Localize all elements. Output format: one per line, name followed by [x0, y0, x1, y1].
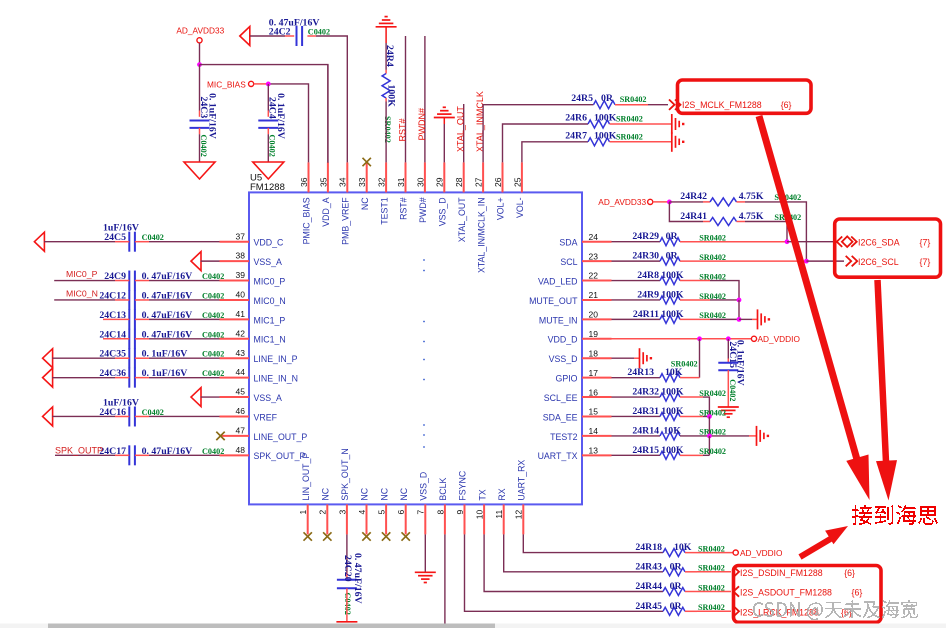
svg-text:PWDN#: PWDN# — [417, 108, 427, 141]
svg-text:24R31: 24R31 — [632, 406, 659, 417]
wire 24C12 right — [135, 299, 149, 301]
capacitor 24C14 — [128, 329, 130, 349]
off-page connector I2S_DSDIN chevron — [734, 567, 740, 577]
ground under C4 — [253, 162, 284, 179]
svg-text:RST#: RST# — [398, 118, 408, 141]
wire 24R18 to AD_VDDIO — [685, 552, 733, 554]
wire 24C12 left — [54, 299, 115, 301]
svg-text:C0402: C0402 — [142, 233, 164, 242]
svg-text:34: 34 — [338, 177, 348, 187]
wire 24R7 to ground — [610, 141, 672, 143]
capacitor 24C4 — [258, 120, 278, 122]
scrollbar — [0, 624, 946, 628]
wire C20 to ground — [346, 588, 348, 621]
svg-text:LINE_IN_P: LINE_IN_P — [254, 354, 298, 364]
wire vertical down — [708, 416, 710, 435]
port arrow pin 44 — [43, 368, 53, 387]
svg-text:0. 47uF/16V: 0. 47uF/16V — [352, 553, 363, 604]
svg-text:SPK_OUTP: SPK_OUTP — [55, 445, 103, 455]
wire AD_AVDD33 to junction — [653, 201, 670, 203]
wire pin 18 VSS_D to ground — [612, 357, 635, 359]
op-amp U5 FM1288 IC body — [249, 192, 582, 504]
svg-text:100K: 100K — [594, 113, 617, 124]
svg-text:0. 1uF/16V: 0. 1uF/16V — [275, 93, 286, 139]
pin 24 SDA stub — [582, 241, 612, 243]
pin 5 NC stub — [385, 504, 387, 534]
wire 24C17 right — [135, 454, 149, 456]
node junction VDD_D gpio — [697, 336, 702, 341]
capacitor 24C13 — [128, 309, 130, 329]
svg-text:100K: 100K — [385, 85, 396, 108]
wire 24R14 to ground — [680, 435, 749, 437]
svg-text:29: 29 — [435, 177, 445, 187]
wire pin 26 to 24R6 row — [503, 124, 589, 162]
capacitor 24C9 — [128, 271, 130, 291]
svg-text:C0402: C0402 — [202, 369, 224, 378]
wire 24C9 right — [135, 280, 149, 282]
wire pin 17 to 24R13 — [612, 377, 661, 379]
svg-text:PMIC_BIAS: PMIC_BIAS — [302, 197, 312, 244]
wire C4 to ground — [267, 128, 269, 134]
annotation arrow from I2C6 box — [878, 280, 887, 462]
pin 43 LINE_IN_P stub — [220, 357, 250, 359]
svg-text:PWD#: PWD# — [418, 197, 428, 223]
svg-text:12: 12 — [514, 510, 524, 520]
resistor 24R4 100K — [382, 74, 390, 99]
pin 35 VDD_A stub — [327, 162, 329, 192]
svg-text:VDD_D: VDD_D — [548, 335, 578, 345]
wire 24C16 left — [115, 415, 129, 417]
wire pin 20 to resistor 24R11 — [612, 318, 661, 320]
annotation arrow from I2S_MCLK box — [759, 116, 860, 470]
svg-text:0R: 0R — [666, 231, 679, 242]
pin 37 VDD_C stub — [220, 241, 250, 243]
annotation text 接到海思 — [852, 505, 938, 525]
pin 29 VSS_D stub — [443, 162, 445, 192]
wire 24R29 to I2C6_SDA — [680, 241, 787, 243]
svg-text:0R: 0R — [670, 561, 683, 572]
wire pin 9 to row 24R45 — [465, 534, 664, 611]
pin 39 MIC0_P stub — [220, 280, 250, 282]
pin 26 VOL+ stub — [502, 162, 504, 192]
pin 18 VSS_D stub — [582, 357, 612, 359]
pin 25 VOL- stub — [521, 162, 523, 192]
svg-text:MIC0_N: MIC0_N — [254, 296, 286, 306]
wire pin 15 to resistor 24R31 — [612, 415, 661, 417]
wire 24R11 to ground — [680, 318, 710, 320]
resistor 24R31 100K — [660, 412, 680, 420]
no-connect X pin 47 — [216, 432, 224, 440]
wire pin 45 — [201, 396, 220, 398]
svg-text:48: 48 — [236, 445, 246, 455]
pin 34 PMB_VREF stub — [346, 162, 348, 192]
node junction SCL pullup — [804, 259, 809, 264]
svg-text:NC: NC — [321, 487, 331, 500]
wire 24R30 to I2C6_SCL — [680, 260, 806, 262]
pin 19 VDD_D stub — [582, 338, 612, 340]
pin 15 SDA_EE stub — [582, 415, 612, 417]
svg-text:MUTE_IN: MUTE_IN — [539, 315, 578, 325]
pin 23 SCL stub — [582, 260, 612, 262]
svg-text:100K: 100K — [661, 406, 684, 417]
svg-text:SDA: SDA — [559, 238, 577, 248]
wire 24R13 to VDD_D net — [680, 377, 700, 379]
svg-text:MIC0_P: MIC0_P — [66, 269, 98, 279]
svg-text:10: 10 — [475, 510, 485, 520]
svg-text:10K: 10K — [663, 425, 681, 436]
svg-text:MIC0_P: MIC0_P — [254, 276, 286, 286]
wire junction down — [738, 300, 740, 319]
svg-text:VAD_LED: VAD_LED — [538, 276, 577, 286]
svg-text:31: 31 — [396, 177, 406, 187]
svg-text:UART_TX: UART_TX — [538, 451, 578, 461]
svg-text:NC: NC — [379, 487, 389, 500]
no-connect X pin 33 — [363, 158, 371, 166]
svg-text:35: 35 — [318, 177, 328, 187]
wire pin 29 to ground — [443, 118, 445, 125]
pin 48 SPK_OUT_P stub — [220, 454, 250, 456]
capacitor 24C36 — [128, 368, 130, 388]
resistor 24R42 4.75K — [710, 198, 737, 206]
svg-text:XTAL_IN/MCLK_IN: XTAL_IN/MCLK_IN — [476, 197, 486, 273]
svg-text:NC: NC — [399, 487, 409, 500]
resistor 24R18 10K — [663, 549, 685, 557]
off-page connector I2S_LRCK chevron — [734, 606, 740, 616]
pin 38 VSS_A stub — [220, 260, 250, 262]
svg-text:24R9: 24R9 — [637, 289, 659, 300]
svg-text:24R4: 24R4 — [384, 45, 395, 67]
svg-text:26: 26 — [493, 177, 503, 187]
svg-text:LINE_OUT_P: LINE_OUT_P — [254, 432, 308, 442]
node junction TEST2 — [707, 434, 712, 439]
annotation box I2S_MCLK — [678, 80, 812, 113]
svg-text:27: 27 — [474, 177, 484, 187]
svg-text:MIC_BIAS: MIC_BIAS — [207, 79, 246, 89]
svg-text:VDD_C: VDD_C — [254, 238, 284, 248]
wire AD_AVDD33 to pin 35 — [200, 65, 328, 163]
wire 24C14 right — [135, 338, 149, 340]
pin 40 MIC0_N stub — [220, 299, 250, 301]
capacitor 24C35 — [128, 348, 130, 368]
svg-text:MIC1_N: MIC1_N — [254, 335, 286, 345]
svg-text:24R6: 24R6 — [565, 113, 587, 124]
svg-text:C0402: C0402 — [202, 291, 224, 300]
svg-text:24R29: 24R29 — [632, 231, 659, 242]
ground above resistor 24R4 — [376, 26, 397, 28]
wire pin 10 to row 24R44 — [484, 534, 663, 591]
svg-text:{7}: {7} — [920, 257, 931, 267]
svg-text:11: 11 — [494, 510, 504, 519]
wire 24C5 left — [115, 241, 129, 243]
svg-text:13: 13 — [589, 446, 599, 456]
no-connect X pin 2 — [323, 532, 331, 540]
port arrow VDD_C — [34, 232, 44, 251]
svg-text:24R43: 24R43 — [635, 561, 662, 572]
svg-text:39: 39 — [236, 270, 246, 280]
wire 24C9 left — [54, 280, 115, 282]
svg-text:10K: 10K — [665, 367, 683, 378]
svg-text:24: 24 — [589, 232, 599, 242]
node artifact dots — [423, 259, 425, 261]
wire 24C14 stub left — [103, 338, 129, 340]
wire junction down to 24R41 — [669, 202, 703, 222]
resistor 24R5 0R — [594, 101, 616, 109]
wire vertical down to UART_TX — [708, 436, 710, 455]
ground under C20 — [336, 621, 357, 623]
svg-text:C0402: C0402 — [202, 350, 224, 359]
svg-text:VOL+: VOL+ — [496, 197, 506, 220]
svg-text:33: 33 — [357, 177, 367, 187]
power terminal AD_AVDD33 — [197, 38, 202, 43]
svg-text:100K: 100K — [661, 387, 684, 398]
svg-text:TEST1: TEST1 — [379, 197, 389, 224]
pin 12 UART_RX stub — [522, 504, 524, 534]
port arrow pin 45 VSS_A — [191, 388, 201, 407]
pin 46 VREF stub — [220, 415, 250, 417]
svg-text:SDA_EE: SDA_EE — [543, 412, 578, 422]
resistor 24R43 0R — [663, 568, 685, 576]
svg-text:28: 28 — [454, 177, 464, 187]
resistor 24R15 100K — [660, 451, 680, 459]
svg-text:FSYNC: FSYNC — [458, 470, 468, 500]
pin 20 MUTE_IN stub — [582, 318, 612, 320]
wire ground to 24R4 — [385, 43, 387, 70]
pin 36 PMIC_BIAS stub — [308, 162, 310, 192]
off-page connector I2S_ASDOUT chevron — [734, 586, 740, 596]
svg-text:23: 23 — [589, 251, 599, 261]
svg-text:VDD_A: VDD_A — [321, 197, 331, 226]
pin 11 RX stub — [503, 504, 505, 534]
off-page connector I2S_MCLK chevron — [669, 100, 675, 110]
svg-text:GPIO: GPIO — [556, 374, 578, 384]
svg-text:BCLK: BCLK — [438, 477, 448, 500]
svg-text:C0402: C0402 — [202, 311, 224, 320]
wire AD_AVDD33 vertical — [199, 43, 201, 65]
wire pin 31 RST# — [405, 36, 407, 162]
svg-text:32: 32 — [377, 177, 387, 187]
svg-text:20: 20 — [589, 310, 599, 320]
svg-text:VOL-: VOL- — [515, 197, 525, 218]
pin 7 VSS_D stub — [424, 504, 426, 534]
svg-text:47: 47 — [236, 426, 246, 436]
svg-text:100K: 100K — [661, 445, 684, 456]
svg-text:SR0402: SR0402 — [616, 115, 643, 124]
svg-text:37: 37 — [236, 231, 246, 241]
svg-text:LINE_IN_N: LINE_IN_N — [254, 374, 299, 384]
wire 24R42 to SCL net — [737, 201, 746, 203]
wire pin 19 VDD_D to AD_VDDIO — [612, 338, 752, 340]
svg-text:NC: NC — [360, 197, 370, 210]
ground above pin 29 — [434, 117, 455, 119]
wire pin 28 XTAL_OUT — [463, 104, 465, 162]
wire pin 30 PWDN# — [424, 36, 426, 162]
svg-text:0R: 0R — [601, 93, 614, 104]
svg-text:0R: 0R — [670, 581, 683, 592]
resistor 24R9 100K — [660, 296, 680, 304]
resistor 24R11 100K — [660, 315, 680, 323]
no-connect X pin 6 — [402, 532, 410, 540]
svg-text:SPK_OUT_P: SPK_OUT_P — [254, 451, 306, 461]
pin 3 SPK_OUT_N stub — [346, 504, 348, 534]
wire pin 27 to 24R5 row — [483, 105, 593, 163]
wire 24R6 to ground — [610, 123, 672, 125]
wire 24R43 right — [685, 571, 697, 573]
pin 41 MIC1_P stub — [220, 318, 250, 320]
wire port to capacitor C2 — [250, 35, 285, 37]
svg-text:24R8: 24R8 — [637, 270, 659, 281]
wire pin 16 to resistor 24R32 — [612, 396, 661, 398]
annotation arrow to text — [800, 538, 832, 557]
svg-text:100K: 100K — [661, 270, 684, 281]
svg-text:SR0402: SR0402 — [620, 95, 647, 104]
svg-text:10K: 10K — [674, 542, 692, 553]
pin 42 MIC1_N stub — [220, 338, 250, 340]
capacitor 24C15 — [718, 362, 738, 364]
pin 30 PWD# stub — [424, 162, 426, 192]
wire 24R15 to vertical — [680, 454, 703, 456]
svg-text:I2S_ASDOUT_FM1288: I2S_ASDOUT_FM1288 — [740, 588, 832, 598]
wire pin 11 to row 24R43 — [504, 534, 663, 571]
svg-text:C0402: C0402 — [202, 272, 224, 281]
wire 24C13 stub left — [103, 318, 129, 320]
pin 45 VSS_A stub — [220, 396, 250, 398]
pin 13 UART_TX stub — [582, 454, 612, 456]
capacitor 24C20 — [337, 579, 357, 581]
svg-text:{6}: {6} — [844, 568, 855, 578]
svg-text:24R14: 24R14 — [632, 425, 659, 436]
svg-text:19: 19 — [589, 329, 599, 339]
capacitor 24C12 — [128, 290, 130, 310]
pin 47 LINE_OUT_P stub — [220, 435, 250, 437]
resistor 24R8 100K — [660, 277, 680, 285]
svg-text:24R13: 24R13 — [627, 367, 654, 378]
ground 24R7 — [671, 132, 673, 152]
svg-text:VSS_D: VSS_D — [549, 354, 578, 364]
wire pin 25 to 24R7 row — [522, 142, 588, 163]
svg-text:C0402: C0402 — [728, 379, 737, 401]
svg-text:UART_RX: UART_RX — [517, 460, 527, 501]
power terminal AD_VDDIO bottom — [733, 550, 738, 555]
svg-text:24R30: 24R30 — [632, 251, 659, 262]
pin 6 NC stub — [405, 504, 407, 534]
capacitor 24C2 — [296, 26, 298, 46]
svg-text:MIC1_P: MIC1_P — [254, 315, 286, 325]
svg-text:VSS_A: VSS_A — [254, 393, 282, 403]
node junction MUTE_OUT — [737, 298, 742, 303]
resistor 24R41 4.75K — [710, 218, 737, 226]
wire 24R8 to net — [680, 280, 710, 282]
svg-text:100K: 100K — [661, 309, 684, 320]
pin 33 NC stub — [366, 162, 368, 192]
svg-text:VSS_A: VSS_A — [254, 257, 282, 267]
node junction MIC_BIAS — [266, 82, 271, 87]
ground MUTE net — [757, 309, 759, 329]
svg-text:24R44: 24R44 — [635, 581, 662, 592]
wire 24C13 right — [135, 318, 149, 320]
wire 24C35 right — [135, 357, 149, 359]
svg-text:24R15: 24R15 — [632, 445, 659, 456]
svg-text:4: 4 — [357, 510, 367, 515]
pin 17 GPIO stub — [582, 377, 612, 379]
svg-text:24R18: 24R18 — [635, 542, 662, 553]
node junction AD_AVDD33 — [197, 62, 202, 67]
wire 24R5 to port — [615, 104, 648, 106]
svg-text:0R: 0R — [670, 601, 683, 612]
port arrow pin 43 — [43, 349, 53, 368]
ground pin 7 — [415, 571, 436, 573]
resistor 24R32 100K — [660, 393, 680, 401]
pin 10 TX stub — [483, 504, 485, 534]
svg-text:MUTE_OUT: MUTE_OUT — [529, 296, 578, 306]
capacitor 24C16 — [128, 406, 130, 426]
svg-text:40: 40 — [236, 290, 246, 300]
resistor 24R29 0R — [660, 238, 680, 246]
svg-text:I2C6_SCL: I2C6_SCL — [858, 257, 899, 267]
wire 24C5 right — [135, 241, 149, 243]
ground under C15 — [718, 406, 739, 408]
pin 8 BCLK stub — [444, 504, 446, 534]
svg-text:36: 36 — [299, 177, 309, 187]
svg-text:21: 21 — [589, 290, 599, 300]
svg-text:XTAL_OUT: XTAL_OUT — [456, 106, 466, 152]
wire pin 8 BCLK down — [444, 534, 446, 624]
svg-text:SR0402: SR0402 — [383, 116, 392, 143]
node junction VDD_D cap — [726, 336, 731, 341]
wire pin 3 to capacitor C20 — [346, 534, 348, 572]
svg-text:0. 1uF/16V: 0. 1uF/16V — [206, 93, 217, 139]
wire pin 38 — [201, 260, 220, 262]
wire 24R45 right — [685, 610, 697, 612]
ground 24R6 — [671, 114, 673, 134]
svg-text:4.75K: 4.75K — [739, 211, 764, 222]
svg-text:8: 8 — [435, 510, 445, 515]
svg-text:AD_VDDIO: AD_VDDIO — [740, 548, 783, 558]
svg-text:24R11: 24R11 — [633, 309, 659, 320]
wire 24C36 right — [135, 377, 149, 379]
wire pin 22 to resistor 24R8 — [612, 280, 661, 282]
pin 32 TEST1 stub — [385, 162, 387, 192]
capacitor 24C3 — [190, 120, 210, 122]
pin 2 NC stub — [326, 504, 328, 534]
svg-text:22: 22 — [589, 271, 599, 281]
pin 27 XTAL_IN/MCLK_IN stub — [482, 162, 484, 192]
wire pin 21 to resistor 24R9 — [612, 299, 661, 301]
watermark CSDN — [753, 600, 918, 620]
svg-text:9: 9 — [455, 510, 465, 515]
pin 4 NC stub — [366, 504, 368, 534]
svg-text:TEST2: TEST2 — [550, 432, 577, 442]
node junction AD_AVDD33 right — [667, 200, 672, 205]
svg-text:VREF: VREF — [254, 412, 278, 422]
svg-text:XTAL_OUT: XTAL_OUT — [457, 197, 467, 242]
svg-text:18: 18 — [589, 348, 599, 358]
svg-text:14: 14 — [589, 426, 599, 436]
svg-text:NC: NC — [360, 487, 370, 500]
wire pin 7 to ground — [424, 534, 426, 571]
node junction SDA_EE — [707, 414, 712, 419]
wire pin 23 to resistor 24R30 — [612, 260, 661, 262]
svg-text:24R42: 24R42 — [680, 191, 707, 202]
pin 31 RST# stub — [405, 162, 407, 192]
svg-text:SCL_EE: SCL_EE — [544, 393, 578, 403]
port arrow VREF — [43, 407, 53, 426]
wire VDD_D down to capacitor C15 — [727, 339, 729, 359]
resistor 24R44 0R — [663, 588, 685, 596]
no-connect X pin 1 — [304, 532, 312, 540]
no-connect X pin 4 — [362, 532, 370, 540]
svg-text:45: 45 — [236, 387, 246, 397]
svg-text:3: 3 — [337, 510, 347, 515]
